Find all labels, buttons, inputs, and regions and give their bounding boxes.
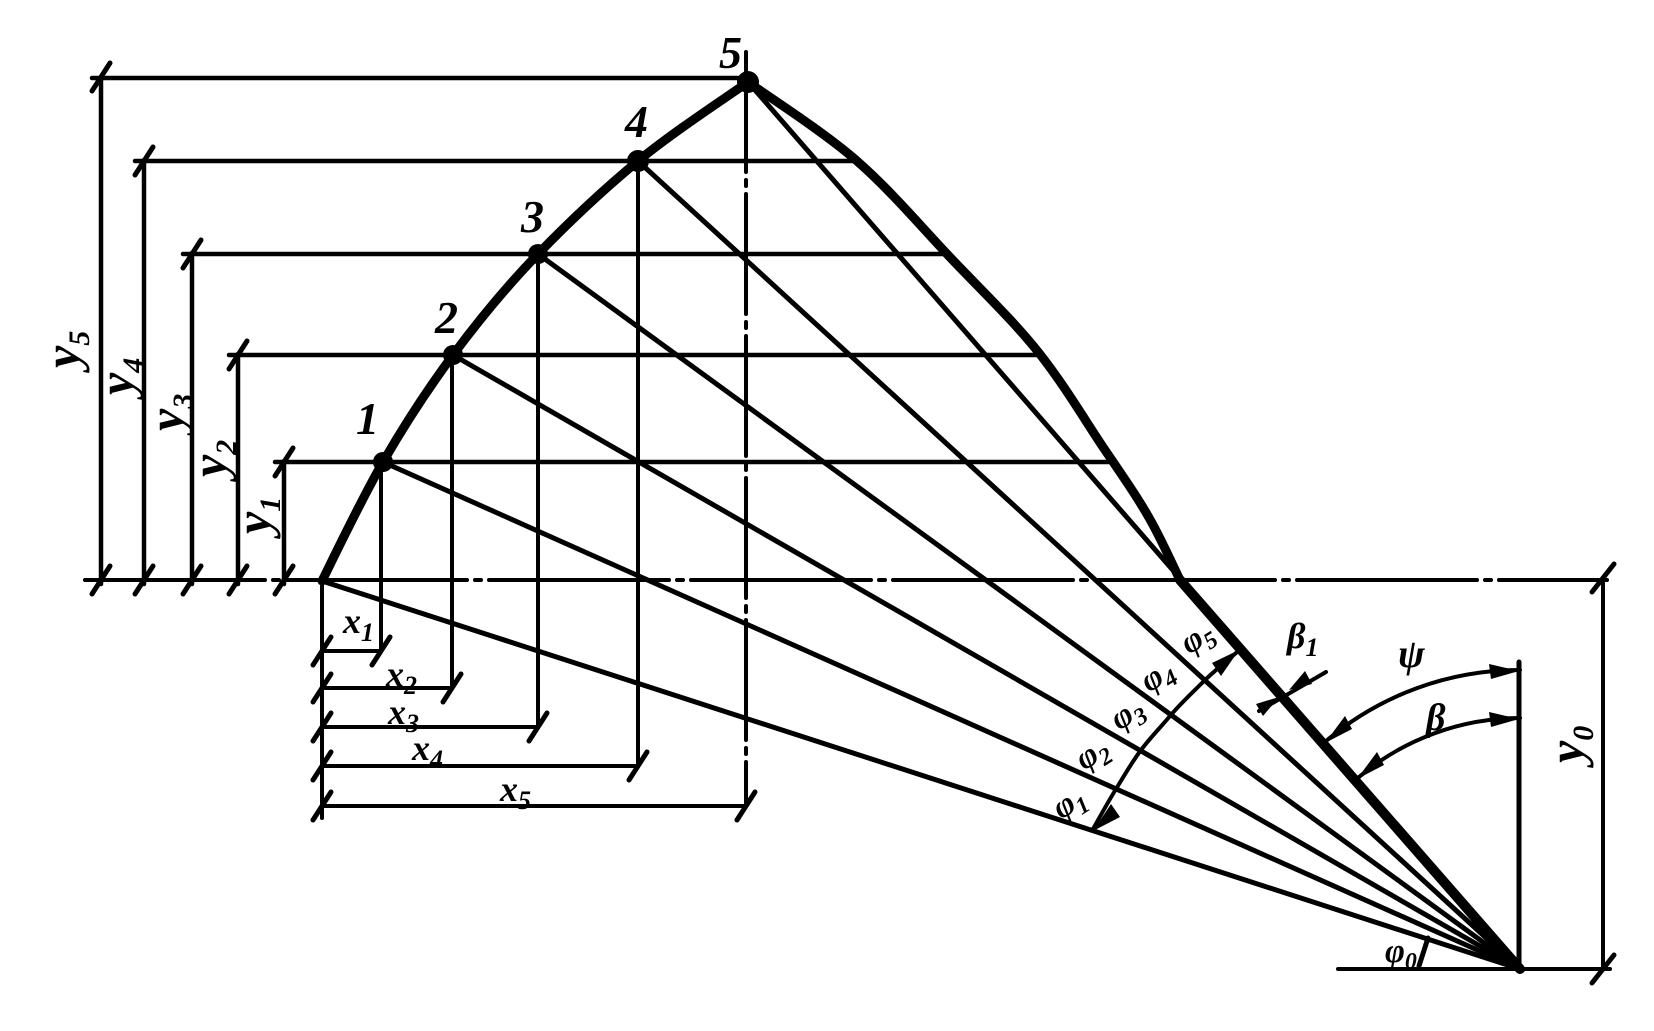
tick top of y1 dimension xyxy=(275,448,293,476)
svg-text:5: 5 xyxy=(719,27,742,78)
tick baseline right end / y0 top xyxy=(1592,564,1614,592)
dimension line x5 xyxy=(322,804,746,808)
blade profile descending curve xyxy=(748,82,1180,580)
beta1 tick across root edge xyxy=(1259,672,1326,711)
dimension line x4 xyxy=(322,764,638,768)
tick baseline at y3 line xyxy=(183,566,201,594)
axis baseline (dash-dot centerline) xyxy=(85,578,1607,582)
dimension line x1 xyxy=(322,649,381,653)
ray O to point 5 xyxy=(748,82,1520,969)
tick top of y5 dimension xyxy=(92,63,110,91)
centre line through point 5 (dash-dot) xyxy=(744,52,748,806)
blade root straight edge (thick) xyxy=(1180,580,1520,969)
ray O to point 1 xyxy=(383,462,1520,969)
point marker 1 xyxy=(373,452,393,472)
ordinate drop line from point 1 xyxy=(379,462,383,651)
dimension line y5 vertical xyxy=(99,77,104,584)
blade profile curve (thick, through points 1-5) xyxy=(322,82,748,581)
tick baseline at y4 line xyxy=(135,566,153,594)
svg-text:2: 2 xyxy=(434,292,458,343)
svg-text:4: 4 xyxy=(624,96,648,147)
horizontal level line y2 xyxy=(229,353,1039,358)
arrowhead phi arc bottom (on ray 0) xyxy=(1093,804,1120,831)
tick x3 right xyxy=(529,713,547,741)
dimension line y0 vertical xyxy=(1601,578,1605,969)
tick x3 left xyxy=(313,713,331,741)
dimension line y3 vertical xyxy=(190,253,195,584)
ordinate drop line from point 3 xyxy=(536,254,540,727)
ray O to point 3 xyxy=(538,254,1520,969)
point marker 3 xyxy=(528,244,548,264)
tick phi0 xyxy=(1419,938,1428,966)
arrowhead psi arc left (on root edge) xyxy=(1325,716,1352,743)
svg-text:3: 3 xyxy=(520,191,544,242)
tick x2 right xyxy=(443,674,461,702)
tick y0 bottom xyxy=(1592,955,1614,983)
arrowhead psi arc right (at vertical line) xyxy=(1489,664,1519,679)
tick x1 right xyxy=(372,637,390,665)
ordinate drop line from point 4 xyxy=(636,161,640,766)
tick x5 right xyxy=(737,792,755,820)
svg-text:ψ: ψ xyxy=(1398,631,1425,676)
dimension line y1 vertical xyxy=(282,461,287,584)
x-ladder left vertical extension xyxy=(320,581,324,818)
dimension line x2 xyxy=(322,686,452,690)
point marker 4 xyxy=(627,150,649,172)
tick x5 left xyxy=(313,792,331,820)
svg-text:β: β xyxy=(1424,697,1446,739)
dimension line y2 vertical xyxy=(236,354,241,584)
tick baseline at y1 line xyxy=(275,566,293,594)
ray O to point 2 xyxy=(453,355,1520,969)
point marker 2 xyxy=(443,345,463,365)
horizontal level line y3 xyxy=(183,252,947,257)
bottom horizontal line through pole O xyxy=(1338,967,1610,971)
phi angles arc across rays xyxy=(1093,652,1237,829)
horizontal level line y5 xyxy=(92,76,748,81)
horizontal level line y1 xyxy=(275,460,1110,465)
tick baseline at y2 line xyxy=(229,566,247,594)
arrowhead phi arc top (on ray 5) xyxy=(1212,650,1239,676)
arrowhead beta arc left (on root edge) xyxy=(1357,752,1384,779)
horizontal level line y4 xyxy=(135,159,857,164)
arrowhead beta arc right (at vertical line) xyxy=(1489,712,1519,727)
tick baseline at y5 line xyxy=(92,566,110,594)
vertical reference line at pole O xyxy=(1517,662,1522,969)
arrowheads xyxy=(1093,650,1519,831)
point marker 5 xyxy=(737,71,759,93)
tick top of y3 dimension xyxy=(183,240,201,268)
tick x1 left xyxy=(313,637,331,665)
ray O to curve start (ray 0) xyxy=(322,581,1520,969)
arrowhead beta1 upper xyxy=(1289,671,1312,690)
psi angle arc xyxy=(1326,670,1520,741)
tick top of y2 dimension xyxy=(229,341,247,369)
tick top of y4 dimension xyxy=(135,147,153,175)
arrowhead beta1 lower xyxy=(1256,697,1279,716)
svg-text:1: 1 xyxy=(356,393,379,444)
tick x2 left xyxy=(313,674,331,702)
dimension line x3 xyxy=(322,725,538,729)
tick x4 left xyxy=(313,752,331,780)
ordinate drop line from point 2 xyxy=(450,355,454,688)
dimension line y4 vertical xyxy=(142,160,147,584)
ray O to point 4 xyxy=(638,161,1520,969)
beta angle arc xyxy=(1359,718,1520,777)
tick x4 right xyxy=(629,752,647,780)
